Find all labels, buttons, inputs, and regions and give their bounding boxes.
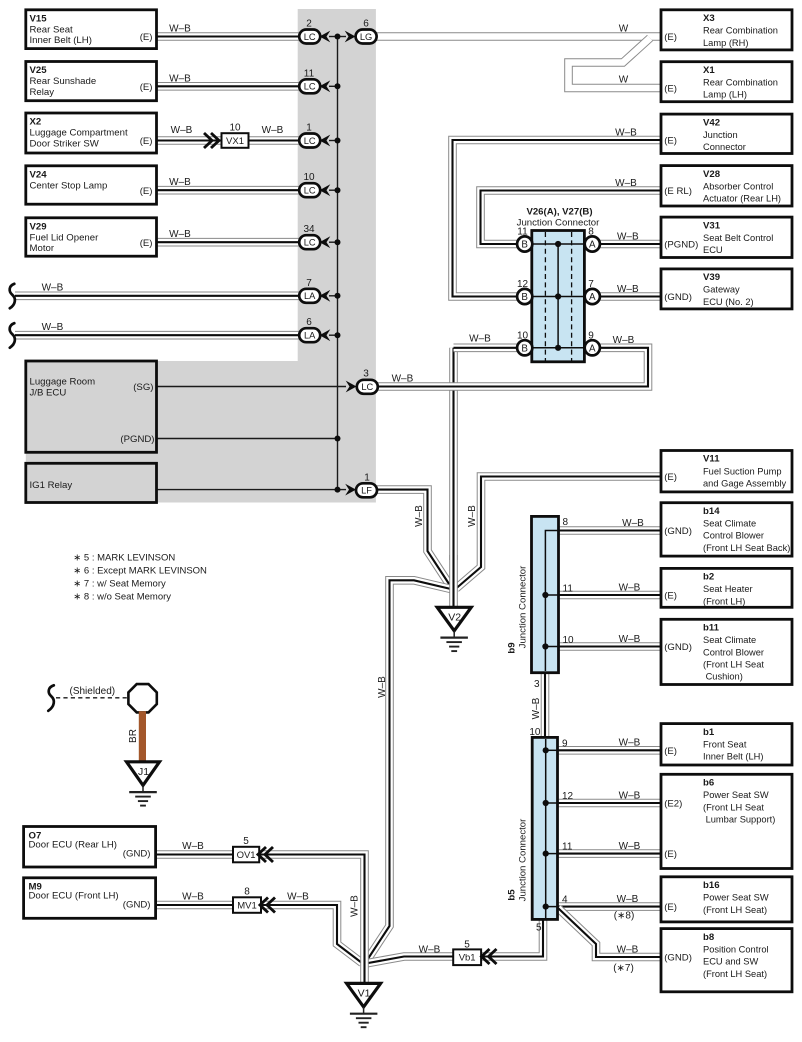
svg-text:X1: X1: [703, 65, 715, 76]
svg-text:W–B: W–B: [182, 841, 204, 852]
svg-text:W–B: W–B: [622, 518, 644, 529]
svg-text:LC: LC: [304, 186, 316, 196]
junction dot bus pin 1 LF: [335, 487, 341, 493]
component box b11 Seat Climate Control Blower (Front LH Seat Cushion): [661, 619, 792, 684]
svg-text:Front Seat: Front Seat: [703, 739, 747, 749]
ground J1 triangle: [127, 762, 160, 786]
arrow into LC pin 3: [346, 381, 357, 393]
connector LG pin 6: [356, 30, 377, 44]
svg-text:J/B ECU: J/B ECU: [30, 387, 67, 398]
svg-text:V29: V29: [30, 222, 47, 233]
svg-text:W–B: W–B: [619, 738, 641, 749]
wire W-B V24 to LC pin 10: [155, 186, 300, 195]
svg-text:Luggage Compartment: Luggage Compartment: [30, 128, 128, 139]
svg-text:B: B: [521, 240, 528, 251]
component box O7 Door ECU (Rear LH): [24, 827, 156, 868]
svg-text:V24: V24: [30, 170, 48, 181]
wire W-B b5 pin 4 to b8: [558, 908, 662, 957]
wire W-B V29 to LC pin 34: [155, 238, 300, 247]
svg-text:∗ 7 : w/ Seat Memory: ∗ 7 : w/ Seat Memory: [73, 579, 166, 590]
svg-text:11: 11: [563, 584, 574, 595]
component box V29 Fuel Lid Opener Motor: [26, 218, 157, 256]
component box b14 Seat Climate Control Blower (Front LH Seat Back): [661, 503, 792, 556]
svg-text:ECU (No. 2): ECU (No. 2): [703, 297, 754, 307]
svg-text:(E): (E): [664, 591, 677, 602]
component box V31 Seat Belt Control ECU: [661, 217, 792, 257]
arrow into LC pin 34: [320, 236, 331, 248]
connector LC pin 10: [299, 183, 320, 197]
svg-text:Gateway: Gateway: [703, 285, 740, 295]
svg-text:ECU and SW: ECU and SW: [703, 957, 759, 967]
connector chevrons OV1: [258, 847, 273, 862]
component box M9 Door ECU (Front LH): [24, 878, 156, 919]
svg-text:(E): (E): [140, 32, 153, 43]
svg-text:Rear Sunshade: Rear Sunshade: [30, 76, 97, 87]
wire W-B A pin 9 loop to LC pin 3: [377, 348, 648, 387]
svg-text:OV1: OV1: [237, 850, 256, 861]
wire (SG) from Luggage Room J/B ECU to LC pin 3: [155, 386, 346, 388]
svg-text:Rear Combination: Rear Combination: [703, 26, 778, 36]
svg-text:W–B: W–B: [262, 125, 284, 136]
svg-text:8: 8: [588, 227, 594, 238]
junction connector b9: [532, 516, 559, 672]
svg-text:LC: LC: [304, 82, 316, 92]
svg-text:(GND): (GND): [123, 899, 151, 910]
svg-text:(E): (E): [140, 238, 153, 249]
wire W-B b5 pin 4 to b16: [557, 902, 662, 911]
dashed shielded wire: [56, 697, 128, 699]
connector LC pin 34: [299, 235, 320, 249]
svg-text:V28: V28: [703, 169, 721, 180]
svg-text:∗ 8 : w/o Seat Memory: ∗ 8 : w/o Seat Memory: [73, 592, 171, 603]
svg-text:(GND): (GND): [664, 642, 692, 653]
svg-text:5: 5: [536, 923, 542, 934]
svg-text:A: A: [589, 343, 596, 354]
svg-text:Seat Climate: Seat Climate: [703, 519, 756, 529]
wire from IG1 Relay to LF pin 1: [155, 489, 346, 491]
svg-text:11: 11: [517, 227, 528, 238]
svg-text:7: 7: [306, 278, 312, 289]
svg-text:W–B: W–B: [619, 841, 641, 852]
svg-text:LC: LC: [304, 136, 316, 146]
svg-text:Inner Belt (LH): Inner Belt (LH): [703, 752, 763, 762]
wire W-B VX1 to LC pin 1: [246, 136, 300, 145]
wire (PGND) from Luggage Room J/B ECU to bus: [155, 438, 338, 440]
junction dot bus PGND: [335, 436, 341, 442]
svg-text:(∗8): (∗8): [614, 910, 635, 921]
component box b1 Front Seat Inner Belt (LH): [661, 724, 792, 765]
svg-text:LA: LA: [304, 291, 316, 301]
wire W branch to X1: [569, 38, 663, 88]
wire W-B b5 pin 11 to b6 (E): [557, 849, 662, 858]
svg-text:Cushion): Cushion): [703, 672, 743, 682]
connector LC pin 1: [299, 134, 320, 148]
svg-text:W–B: W–B: [617, 284, 639, 295]
inline connector OV1: [233, 847, 259, 863]
shield octagon: [128, 684, 156, 712]
continuation squiggle (shielded lead): [48, 685, 54, 711]
svg-text:Center Stop Lamp: Center Stop Lamp: [30, 180, 108, 191]
svg-text:V42: V42: [703, 117, 720, 128]
svg-text:10: 10: [303, 172, 315, 183]
svg-text:W–B: W–B: [619, 634, 641, 645]
svg-text:W–B: W–B: [169, 73, 191, 84]
wire W-B continuation to LA pin 7: [15, 291, 300, 300]
svg-text:V39: V39: [703, 272, 720, 283]
svg-text:Junction: Junction: [703, 130, 738, 140]
wire W-B continuation to LA pin 6: [15, 331, 300, 340]
ground V1 triangle: [347, 983, 381, 1007]
wire W-B b9 pin 11 to b2: [558, 591, 662, 600]
svg-text:(E): (E): [664, 472, 677, 483]
svg-text:W–B: W–B: [392, 374, 414, 385]
pin 8 circle A: [585, 236, 600, 251]
svg-text:Junction Connector: Junction Connector: [518, 565, 529, 648]
component box V24 Center Stop Lamp: [26, 166, 157, 204]
svg-text:A: A: [589, 240, 596, 251]
svg-text:LF: LF: [361, 486, 372, 496]
svg-text:1: 1: [306, 123, 312, 134]
component box b8 Position Control ECU and SW (Front LH Seat): [661, 929, 792, 992]
svg-text:Connector: Connector: [703, 142, 746, 152]
svg-text:6: 6: [363, 19, 369, 30]
svg-text:(Front LH Seat): (Front LH Seat): [703, 905, 767, 915]
junction dot bus LA pin 6: [335, 332, 341, 338]
svg-text:(PGND): (PGND): [120, 434, 154, 445]
component box V25 Rear Sunshade Relay: [26, 62, 157, 101]
component box X3 Rear Combination Lamp (RH): [661, 10, 792, 50]
ground V2 triangle: [437, 607, 471, 631]
svg-text:Relay: Relay: [30, 87, 55, 98]
wire W-B b9 pin 8 to b14: [558, 526, 662, 535]
wire W-B stem into ground V2: [449, 555, 458, 607]
wire W-B V25 to LC pin 11: [155, 82, 300, 91]
svg-text:W–B: W–B: [617, 944, 639, 955]
svg-text:∗ 5 : MARK LEVINSON: ∗ 5 : MARK LEVINSON: [73, 552, 175, 563]
connector LC pin 3: [357, 380, 378, 394]
svg-text:V11: V11: [703, 454, 720, 465]
pin 10 circle B: [517, 340, 532, 355]
svg-text:Rear Seat: Rear Seat: [30, 24, 74, 35]
junction dot bus pin 1: [335, 138, 341, 144]
svg-text:J1: J1: [138, 766, 149, 778]
svg-text:W–B: W–B: [171, 125, 193, 136]
component box V15 Rear Seat Inner Belt (LH): [26, 10, 157, 49]
inline connector Vb1: [453, 949, 481, 965]
svg-text:Position Control: Position Control: [703, 944, 769, 954]
svg-text:b11: b11: [703, 623, 720, 634]
pin 9 circle A: [585, 340, 600, 355]
connector LA pin 6: [299, 328, 320, 342]
svg-text:4: 4: [562, 895, 568, 906]
svg-text:W–B: W–B: [617, 231, 639, 242]
component box b16 Power Seat SW (Front LH Seat): [661, 877, 792, 922]
svg-text:Fuel Suction Pump: Fuel Suction Pump: [703, 466, 782, 476]
svg-text:(E): (E): [664, 746, 677, 757]
arrow into LA pin 7: [320, 290, 331, 302]
svg-text:(PGND): (PGND): [664, 240, 698, 251]
svg-text:W–B: W–B: [169, 24, 191, 35]
svg-text:Absorber Control: Absorber Control: [703, 181, 773, 191]
svg-text:Control Blower: Control Blower: [703, 531, 764, 541]
svg-text:Motor: Motor: [30, 243, 55, 254]
svg-text:V15: V15: [30, 14, 48, 25]
svg-text:V1: V1: [358, 987, 371, 999]
svg-text:b2: b2: [703, 572, 714, 583]
svg-text:(Front LH Seat): (Front LH Seat): [703, 969, 767, 979]
continuation squiggle LA pin 6 wire: [10, 323, 15, 348]
svg-text:(E): (E): [664, 136, 677, 147]
svg-text:W–B: W–B: [617, 894, 639, 905]
svg-text:b9: b9: [507, 642, 518, 653]
svg-text:Power Seat SW: Power Seat SW: [703, 893, 769, 903]
svg-text:(GND): (GND): [664, 953, 692, 964]
svg-text:W–B: W–B: [377, 676, 388, 698]
svg-text:Luggage Room: Luggage Room: [30, 377, 96, 388]
shaded J/B region: [26, 9, 376, 503]
svg-text:Lamp (RH): Lamp (RH): [703, 38, 748, 48]
svg-text:8: 8: [563, 517, 569, 528]
wire W-B Vb1 to V1: [366, 957, 454, 964]
component box V39 Gateway ECU (No. 2): [661, 269, 792, 309]
svg-text:(E): (E): [664, 32, 677, 43]
svg-text:W–B: W–B: [169, 177, 191, 188]
component box V28 Absorber Control Actuator (Rear LH): [661, 166, 792, 206]
component box X1 Rear Combination Lamp (LH): [661, 62, 792, 102]
svg-text:VX1: VX1: [226, 136, 244, 147]
wire W-B V42 to junction connector B pin 12: [453, 140, 663, 297]
svg-text:8: 8: [244, 887, 250, 898]
svg-text:W–B: W–B: [287, 891, 309, 902]
svg-text:V26(A), V27(B): V26(A), V27(B): [526, 207, 592, 218]
pin 12 circle B: [517, 289, 532, 304]
svg-text:(Front LH): (Front LH): [703, 596, 745, 606]
wire W-B V15 to LC pin 2: [155, 32, 300, 41]
svg-text:Door ECU (Rear LH): Door ECU (Rear LH): [29, 840, 118, 851]
inline connector VX1: [222, 133, 249, 148]
junction connector b5: [532, 737, 557, 919]
wire W-B V2 to V1 link: [366, 580, 454, 962]
svg-text:(E): (E): [664, 902, 677, 913]
junction dot bus pin 34: [335, 239, 341, 245]
svg-text:12: 12: [562, 791, 574, 802]
svg-text:W–B: W–B: [350, 895, 361, 917]
svg-text:W–B: W–B: [613, 335, 635, 346]
svg-text:(E): (E): [140, 82, 153, 93]
svg-text:Control Blower: Control Blower: [703, 647, 764, 657]
svg-text:W–B: W–B: [615, 178, 637, 189]
svg-text:(∗7): (∗7): [613, 963, 634, 974]
svg-text:b14: b14: [703, 506, 720, 517]
svg-text:Rear Combination: Rear Combination: [703, 78, 778, 88]
svg-text:Actuator (Rear LH): Actuator (Rear LH): [703, 194, 781, 204]
wire BR brown shield drain: [139, 711, 146, 763]
wire W-B junction connector A pin 7 to V39: [599, 292, 662, 301]
wire W-B b5 pin 5 to Vb1: [482, 919, 543, 957]
svg-text:(GND): (GND): [664, 292, 692, 303]
svg-text:V31: V31: [703, 220, 721, 231]
svg-text:Lumbar Support): Lumbar Support): [703, 815, 775, 825]
wire W-B b9 pin 3 to b5 pin 10: [541, 672, 550, 738]
svg-text:Seat Belt Control: Seat Belt Control: [703, 233, 773, 243]
arrow into LC pin 11: [320, 80, 331, 92]
arrow into LC pin 2: [320, 31, 331, 43]
wire W-B b5 pin 12 to b6 (E2): [557, 799, 662, 808]
connector LC pin 2: [299, 30, 320, 44]
svg-text:W–B: W–B: [469, 333, 491, 344]
svg-text:b1: b1: [703, 727, 715, 738]
svg-text:(E): (E): [664, 849, 677, 860]
wire W-B O7 via OV1 to ground V1: [155, 855, 365, 984]
wire W-B b9 pin 10 to b11: [558, 642, 662, 651]
component box IG1 Relay: [26, 463, 157, 502]
svg-text:(Shielded): (Shielded): [70, 686, 116, 697]
svg-text:Door ECU (Front LH): Door ECU (Front LH): [29, 891, 119, 902]
footnote legend: [73, 552, 207, 602]
svg-text:10: 10: [229, 123, 241, 134]
svg-text:Power Seat SW: Power Seat SW: [703, 790, 769, 800]
connector chevrons MV1: [260, 898, 275, 913]
svg-text:10: 10: [563, 635, 575, 646]
svg-text:W: W: [619, 75, 629, 86]
wire W-B V28 to junction connector B pin 11: [481, 191, 663, 245]
ground symbol V2: [440, 631, 468, 651]
svg-text:BR: BR: [128, 729, 139, 743]
svg-text:6: 6: [306, 317, 312, 328]
component box b2 Seat Heater (Front LH): [661, 568, 792, 607]
svg-text:Door Striker SW: Door Striker SW: [30, 138, 100, 149]
svg-text:MV1: MV1: [237, 900, 257, 911]
svg-text:(Front LH Seat: (Front LH Seat: [703, 802, 764, 812]
svg-text:(E): (E): [140, 186, 153, 197]
svg-text:LC: LC: [304, 32, 316, 42]
wire W LG pin 6 to X3: [376, 32, 662, 41]
component box V11 Fuel Suction Pump and Gage Assembly: [661, 451, 792, 492]
junction dot bus pin 10: [335, 187, 341, 193]
svg-text:W: W: [619, 24, 629, 35]
svg-text:Inner Belt (LH): Inner Belt (LH): [30, 35, 92, 46]
svg-text:Junction Connector: Junction Connector: [518, 818, 529, 901]
svg-text:(E): (E): [140, 136, 153, 147]
svg-text:LA: LA: [304, 331, 316, 341]
svg-text:b8: b8: [703, 932, 715, 943]
svg-text:11: 11: [562, 842, 573, 853]
arrow into LC pin 1: [320, 135, 331, 147]
svg-text:10: 10: [529, 727, 541, 738]
svg-text:W–B: W–B: [42, 322, 64, 333]
svg-text:34: 34: [303, 224, 315, 235]
svg-text:Seat Heater: Seat Heater: [703, 584, 753, 594]
component box Luggage Room J/B ECU: [26, 361, 157, 452]
ground symbol J1: [129, 785, 157, 805]
junction dot bus pin 11: [335, 83, 341, 89]
svg-text:ECU: ECU: [703, 245, 723, 255]
svg-text:∗ 6 : Except MARK LEVINSON: ∗ 6 : Except MARK LEVINSON: [73, 565, 207, 576]
svg-text:V2: V2: [448, 611, 461, 623]
svg-text:W–B: W–B: [169, 229, 191, 240]
svg-text:10: 10: [517, 330, 529, 341]
svg-text:5: 5: [464, 940, 470, 951]
svg-text:W–B: W–B: [414, 505, 425, 527]
svg-text:W–B: W–B: [182, 891, 204, 902]
continuation squiggle LA pin 7 wire: [10, 284, 15, 309]
arrow into LA pin 6: [320, 329, 331, 341]
svg-text:X2: X2: [30, 117, 42, 128]
svg-text:Fuel Lid Opener: Fuel Lid Opener: [30, 232, 100, 243]
arrow into LC pin 10: [320, 184, 331, 196]
svg-text:12: 12: [517, 279, 529, 290]
bus wire inside J/B region: [337, 37, 339, 490]
svg-text:b6: b6: [703, 778, 714, 789]
svg-text:A: A: [589, 292, 596, 303]
wire W-B junction connector B pin 10 down to V2: [449, 348, 458, 560]
inline connector MV1: [233, 897, 261, 913]
svg-text:b5: b5: [507, 889, 518, 901]
junction dot bus pin 2: [335, 34, 341, 40]
svg-text:X3: X3: [703, 13, 715, 24]
wire W-B junction connector A pin 8 to V31: [599, 240, 662, 249]
ground symbol V1: [350, 1007, 378, 1027]
pin 7 circle A: [585, 289, 600, 304]
wire W-B b5 pin 9 to b1: [557, 746, 662, 755]
svg-text:W–B: W–B: [615, 127, 637, 138]
junction dot bus LA pin 7: [335, 293, 341, 299]
svg-text:(E2): (E2): [664, 799, 682, 810]
svg-text:Lamp (LH): Lamp (LH): [703, 90, 747, 100]
svg-text:LC: LC: [304, 238, 316, 248]
component box V42 Junction Connector: [661, 114, 792, 153]
svg-text:and Gage Assembly: and Gage Assembly: [703, 479, 787, 489]
svg-text:IG1 Relay: IG1 Relay: [30, 480, 73, 491]
wire W-B V11 to V2: [456, 477, 662, 589]
svg-text:b16: b16: [703, 880, 720, 891]
svg-text:(E RL): (E RL): [664, 186, 692, 197]
svg-text:2: 2: [306, 19, 312, 30]
svg-text:1: 1: [364, 472, 370, 483]
svg-text:B: B: [521, 343, 528, 354]
svg-text:(Front LH Seat: (Front LH Seat: [703, 660, 764, 670]
connector LF pin 1: [356, 483, 377, 497]
component box b6 Power Seat SW (Front LH Seat Lumbar Support): [661, 774, 792, 868]
svg-text:W–B: W–B: [619, 582, 641, 593]
wire W-B X2 to VX1: [155, 136, 221, 145]
component box X2 Luggage Compartment Door Striker SW: [26, 113, 157, 153]
svg-text:11: 11: [304, 68, 315, 79]
svg-text:(GND): (GND): [123, 848, 151, 859]
wire W-B LF pin 1 to V2: [377, 490, 452, 589]
svg-text:W–B: W–B: [531, 697, 542, 719]
connector chevrons Vb1: [482, 949, 497, 964]
svg-text:3: 3: [363, 368, 369, 379]
svg-text:Seat Climate: Seat Climate: [703, 635, 756, 645]
arrow into LG pin 6: [345, 31, 356, 43]
arrow into LF pin 1: [345, 484, 356, 496]
svg-text:9: 9: [588, 330, 594, 341]
svg-text:5: 5: [243, 836, 249, 847]
svg-text:W–B: W–B: [42, 283, 64, 294]
svg-text:(E): (E): [664, 84, 677, 95]
svg-text:W–B: W–B: [619, 790, 641, 801]
connector LA pin 7: [299, 289, 320, 303]
wire W-B M9 via MV1 to V1: [155, 905, 362, 963]
svg-text:V25: V25: [30, 65, 48, 76]
svg-text:7: 7: [588, 279, 594, 290]
svg-text:LC: LC: [361, 382, 373, 392]
junction connector V26(A), V27(B): [532, 231, 585, 362]
connector chevrons VX1: [204, 133, 219, 148]
svg-text:W–B: W–B: [467, 505, 478, 527]
pin 11 circle B: [517, 236, 532, 251]
